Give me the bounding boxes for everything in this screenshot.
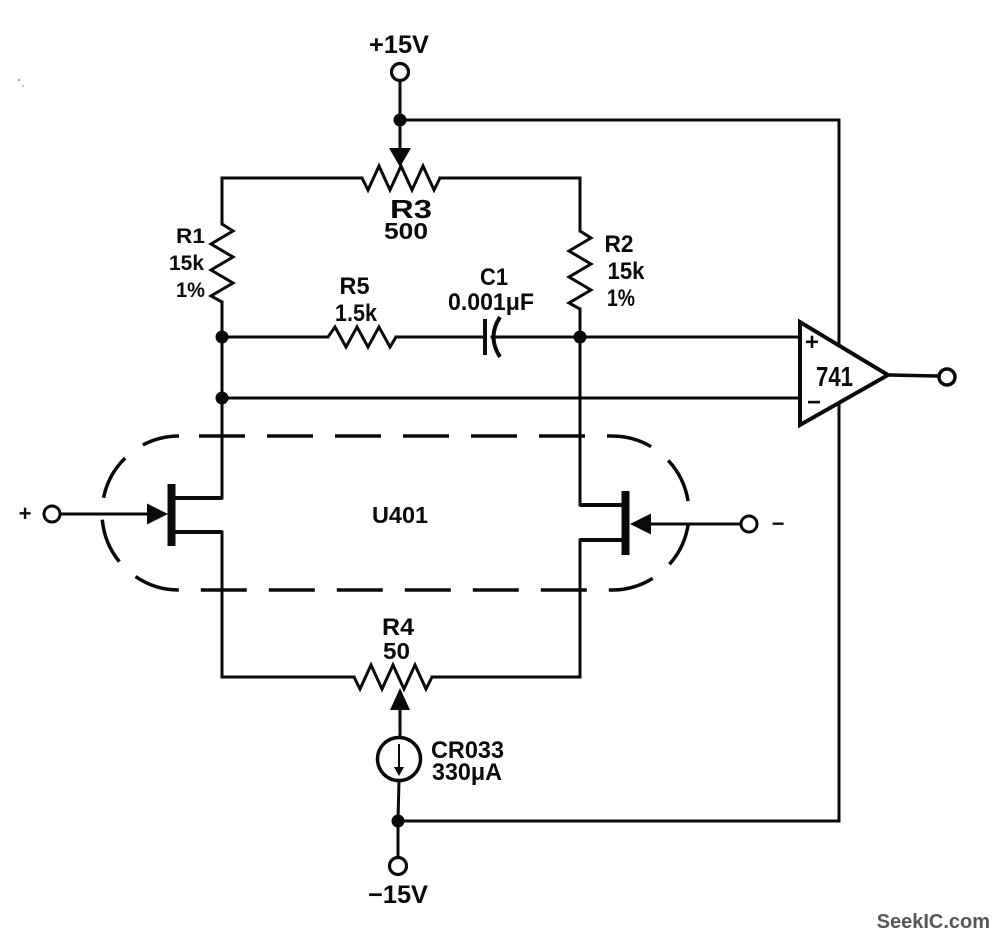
transistor Q2 source lead [580, 538, 628, 542]
wire top rail to feedback [400, 119, 839, 122]
wire right rail lower [579, 540, 582, 677]
wire right rail mid [579, 309, 582, 505]
svg-text:R2: R2 [605, 231, 634, 258]
transistor Q1 source lead [173, 530, 222, 534]
svg-text:R5: R5 [340, 273, 370, 300]
svg-text:50: 50 [383, 638, 410, 664]
node junction +15V [394, 114, 407, 127]
resistor R1 zigzag [211, 224, 233, 302]
resistor R3 zigzag [362, 166, 440, 190]
wire node line1 left [222, 336, 328, 339]
wire R3 line left [222, 177, 362, 180]
node junction line1 left [216, 331, 229, 344]
svg-text:1%: 1% [607, 285, 635, 312]
current source CR033 inner arrow [398, 744, 400, 769]
transistor Q2 gate arrowhead [630, 514, 651, 535]
current source CR033 circle [378, 738, 421, 781]
svg-text:SeekIC.com: SeekIC.com [877, 911, 990, 933]
svg-text:1%: 1% [176, 279, 205, 302]
svg-text:R1: R1 [176, 225, 205, 248]
svg-text:15k: 15k [608, 258, 646, 285]
svg-text:15k: 15k [169, 252, 204, 275]
wire left rail mid [221, 302, 224, 498]
svg-text:U401: U401 [372, 502, 428, 528]
scan speck [18, 79, 21, 82]
wire node line1 right to op-amp [492, 336, 800, 339]
capacitor C1 right curved plate [494, 317, 501, 357]
node junction bottom [392, 815, 405, 828]
resistor R2 zigzag [569, 231, 591, 309]
transistor Q1 gate arrowhead [147, 504, 168, 525]
wire right gate input [649, 523, 740, 526]
transistor Q1 left JFET channel bar [168, 484, 176, 546]
svg-text:−: − [807, 389, 821, 416]
svg-text:C1: C1 [480, 264, 508, 291]
transistor Q2 right JFET channel bar [622, 491, 630, 555]
svg-text:R4: R4 [382, 614, 415, 641]
wire op-amp output [888, 375, 938, 376]
terminal - input circle [741, 516, 757, 532]
svg-text:−: − [772, 511, 785, 536]
wire right rail upper [579, 178, 582, 231]
svg-text:+: + [19, 501, 32, 526]
resistor R4 zigzag [354, 665, 432, 689]
node junction line1 right [574, 331, 587, 344]
wire R3 wiper [399, 120, 402, 150]
terminal output circle [939, 369, 955, 385]
U401 dashed package outline [102, 436, 689, 590]
wire node line2 to op-amp [222, 397, 800, 400]
capacitor C1 left plate [483, 319, 487, 355]
transistor Q1 drain lead [173, 496, 222, 500]
wire +15V terminal lead [399, 80, 402, 120]
R3 wiper arrowhead [389, 148, 411, 167]
wire R4 line right [432, 676, 580, 679]
wire left rail lower [221, 532, 224, 677]
svg-text:741: 741 [816, 361, 853, 392]
svg-text:0.001μF: 0.001μF [448, 289, 534, 316]
wire R4 line left [222, 676, 354, 679]
wire left rail upper [221, 178, 224, 224]
wire left gate input [61, 513, 150, 516]
svg-text:330μA: 330μA [432, 759, 502, 786]
svg-text:+15V: +15V [369, 31, 429, 59]
wire node line1 mid [396, 336, 483, 339]
svg-text:+: + [805, 329, 819, 356]
resistor R5 zigzag [328, 327, 396, 347]
terminal + input circle [44, 506, 60, 522]
wire R3 line right [440, 177, 580, 180]
wire CR033 to bottom node [398, 780, 399, 821]
wire feedback vertical [838, 120, 841, 821]
terminal +15V circle [392, 64, 409, 81]
wire bottom rail [398, 820, 839, 823]
R4 wiper arrowhead [390, 688, 410, 710]
op-amp U1 741 triangle [800, 322, 888, 425]
transistor Q2 drain lead [580, 503, 628, 507]
node junction line2 left [216, 392, 229, 405]
terminal -15V circle [390, 858, 407, 875]
svg-text:1.5k: 1.5k [335, 300, 378, 327]
wire bottom node to -15V terminal [397, 821, 400, 858]
svg-text:−15V: −15V [368, 881, 428, 909]
wire R4 arrow to CR033 [399, 708, 402, 739]
svg-text:500: 500 [384, 218, 428, 244]
